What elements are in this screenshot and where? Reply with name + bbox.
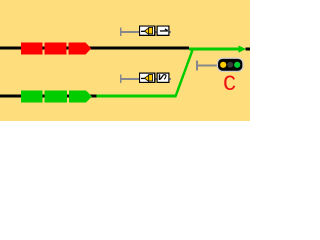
occupied section T1 red block 3 with arrow tip <box>69 43 92 55</box>
panel background <box>0 0 250 121</box>
occupied section T1 red block 1 <box>21 43 43 55</box>
wire track 2 main line (black) <box>0 95 97 98</box>
signal C head <box>217 58 243 71</box>
signal 2 mast line <box>120 78 171 80</box>
signal C unlit lamp <box>227 62 233 68</box>
occupied section T1 red block 2 <box>45 43 67 55</box>
wire diagonal route (green turnout) <box>174 50 194 97</box>
wire route light track 1 (green with arrow) <box>189 48 240 51</box>
signal C green lamp <box>234 62 240 68</box>
wire track 1 main line (black) <box>0 47 189 50</box>
signal 1 number box "1" <box>156 25 169 36</box>
signal 1 mast T-bar <box>120 28 122 37</box>
signal 2 mast T-bar <box>120 75 122 84</box>
signal C yellow lamp <box>220 62 226 68</box>
wire track 1 right stub after arrow <box>246 48 251 51</box>
signal 2 indicator box (yellow arrow) <box>139 73 156 84</box>
route section T2 green block 3 with arrow tip <box>69 91 92 103</box>
signal 2 number box "2" <box>156 73 169 84</box>
node green route arrow head <box>239 46 247 53</box>
route section T2 green block 2 <box>45 91 68 103</box>
signal C mast T-bar <box>196 61 198 71</box>
signal 1 indicator box (yellow arrow) <box>139 25 156 36</box>
route section T2 green block 1 <box>21 91 43 103</box>
signal 1 mast line <box>120 31 171 33</box>
svg-text:C: C <box>223 72 236 97</box>
signal C mast line <box>196 65 218 67</box>
wire route light track 2 (thin green) <box>97 95 177 98</box>
